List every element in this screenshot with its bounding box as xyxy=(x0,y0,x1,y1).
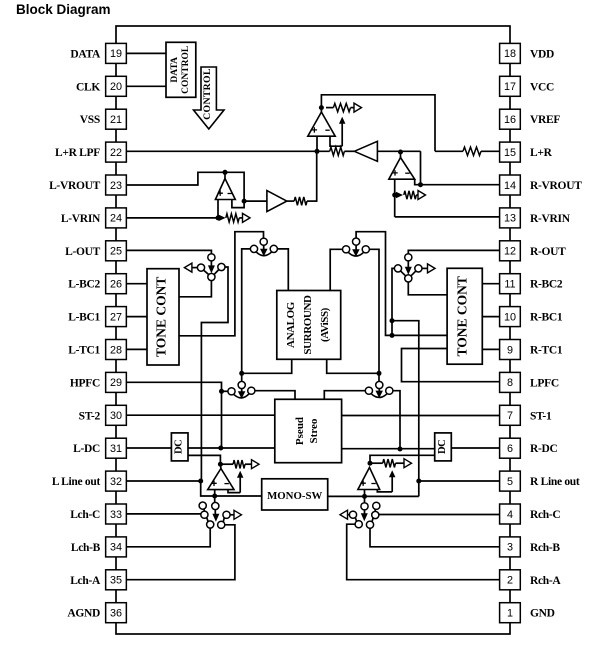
junction dot SW-D feed xyxy=(212,494,217,499)
op-amp U12 (R Line out) xyxy=(358,467,380,489)
CONTROL block arrow xyxy=(194,67,225,129)
svg-text:L-OUT: L-OUT xyxy=(65,246,101,258)
pin 7 box and label ST-1 xyxy=(500,405,552,425)
wire pin32 node to SW-D xyxy=(201,481,215,496)
svg-text:R-VROUT: R-VROUT xyxy=(530,180,582,192)
svg-text:14: 14 xyxy=(504,180,516,192)
wire pin10 to TONE CONT right xyxy=(482,316,499,318)
svg-text:16: 16 xyxy=(504,114,516,126)
block U8 Pseud Streo xyxy=(275,399,342,462)
svg-text:GND: GND xyxy=(530,608,555,620)
wire SW-Ar bottom to TONE CONT right xyxy=(408,282,447,295)
svg-text:L-DC: L-DC xyxy=(73,443,100,455)
wire pin3 Rch-B xyxy=(370,528,500,547)
resistor R2 (pin22 to buffer) xyxy=(330,147,345,155)
pin 3 box and label Rch-B xyxy=(500,537,561,557)
wire U3 plus input to pin22 net xyxy=(316,136,318,151)
wire pin33 Lch-C xyxy=(127,513,202,515)
pin 20 box and label CLK xyxy=(76,76,126,96)
pin 32 box and label L Line out xyxy=(52,471,126,491)
pin 34 box and label Lch-B xyxy=(71,537,127,557)
svg-text:LPFC: LPFC xyxy=(530,377,559,389)
pin 16 box and label VREF xyxy=(500,109,561,129)
svg-text:2: 2 xyxy=(507,575,513,587)
svg-text:SURROUND: SURROUND xyxy=(302,295,314,355)
pointer left of SW-E xyxy=(340,510,350,519)
wire Qr TONE CONT right to SW-Br xyxy=(356,232,447,336)
variable resistor VR2 (R-VRIN) xyxy=(396,191,426,200)
node dot on U3 output branch xyxy=(319,105,324,110)
svg-text:Lch-B: Lch-B xyxy=(71,542,101,554)
wire U9 minus stub xyxy=(228,490,240,493)
svg-text:L+R LPF: L+R LPF xyxy=(55,147,100,159)
wire DC right to pin6 xyxy=(451,447,499,449)
svg-text:Rch-B: Rch-B xyxy=(530,542,560,554)
svg-text:11: 11 xyxy=(504,279,515,291)
wire U3 minus feedback stub xyxy=(330,136,342,146)
wire pin30 ST-2 xyxy=(127,414,275,416)
svg-text:R-VRIN: R-VRIN xyxy=(530,213,571,225)
wire pin5 R Line out xyxy=(419,480,500,482)
svg-text:10: 10 xyxy=(504,311,516,323)
svg-text:ST-2: ST-2 xyxy=(79,410,101,422)
pin 1 box and label GND xyxy=(500,603,555,623)
control arrow at R1 xyxy=(339,117,346,146)
wire pin35 Lch-A xyxy=(127,525,235,580)
pin 9 box and label R-TC1 xyxy=(500,340,563,360)
wire Rr to R line out net xyxy=(392,321,419,497)
pin 23 box and label L-VROUT xyxy=(49,175,126,195)
svg-text:L+R: L+R xyxy=(530,147,553,159)
pin 19 box and label DATA xyxy=(70,43,126,63)
svg-text:33: 33 xyxy=(110,509,122,521)
junction dot U4 output xyxy=(398,150,403,155)
variable resistor VR1 (L-VRIN) xyxy=(219,213,250,222)
wire SW-A bottom to TONE CONT xyxy=(179,280,211,296)
svg-text:AGND: AGND xyxy=(67,608,100,620)
svg-text:R-BC2: R-BC2 xyxy=(530,279,563,291)
svg-text:TONE CONT: TONE CONT xyxy=(455,276,470,356)
svg-text:L-BC2: L-BC2 xyxy=(68,279,100,291)
svg-text:(AViSS): (AViSS) xyxy=(319,307,331,342)
switch SW-D (Lch A/B/C) xyxy=(199,502,230,528)
switch SW-Br xyxy=(343,238,370,257)
svg-text:R-OUT: R-OUT xyxy=(530,246,566,258)
block U6 TONE CONT (left) xyxy=(147,269,179,365)
switch SW-E (Rch A/B/C) xyxy=(349,502,380,528)
svg-text:13: 13 xyxy=(504,213,516,225)
wire U9 plus input xyxy=(214,490,216,503)
wire U5 output stub xyxy=(224,172,226,178)
svg-text:R-BC1: R-BC1 xyxy=(530,312,563,324)
pin 36 box and label AGND xyxy=(67,603,126,623)
svg-text:Rch-A: Rch-A xyxy=(530,575,561,587)
switch SW-Ar (R-OUT) xyxy=(394,254,422,282)
wire U12 minus stub xyxy=(377,490,392,492)
pin 11 box and label R-BC2 xyxy=(500,274,563,294)
wire U9 output apex stub xyxy=(219,464,222,468)
junction dot HPFC-SWC xyxy=(219,389,224,394)
svg-text:ST-1: ST-1 xyxy=(530,410,552,422)
pin 33 box and label Lch-C xyxy=(70,504,126,524)
wire pin32 L Line out xyxy=(127,480,201,482)
pin 27 box and label L-BC1 xyxy=(68,307,126,327)
junction dot buffer B2 input xyxy=(242,199,247,204)
op-amp U5 (L-VROUT) xyxy=(215,179,235,200)
wire pin24 L-VRIN xyxy=(127,217,219,219)
svg-text:12: 12 xyxy=(504,246,516,258)
pointer left of SW-A xyxy=(184,263,197,272)
wire Q TONE CONT to SW-B top xyxy=(179,232,264,336)
svg-text:TONE CONT: TONE CONT xyxy=(154,277,169,357)
wire R4 riser to pin22 node xyxy=(316,151,318,202)
svg-text:8: 8 xyxy=(507,377,513,389)
junction dot R-DC node xyxy=(398,447,403,452)
wire SW-Cr left stub to Pseud Stereo xyxy=(324,391,365,400)
junction dot pin32 node xyxy=(198,479,203,484)
svg-text:CONTROL: CONTROL xyxy=(181,46,191,94)
pin 5 box and label R Line out xyxy=(500,471,580,491)
svg-text:CONTROL: CONTROL xyxy=(202,68,213,120)
wire U5 plus input stub xyxy=(217,200,219,218)
resistor R4 (B2 output) xyxy=(294,197,307,205)
wire SW-Br left stub to AViSS xyxy=(330,249,343,290)
wire to buffer B2 xyxy=(244,200,267,202)
pin 15 box and label L+R xyxy=(500,142,553,162)
svg-text:17: 17 xyxy=(504,81,516,93)
pin 4 box and label Rch-C xyxy=(500,504,561,524)
svg-text:22: 22 xyxy=(110,147,122,159)
svg-text:25: 25 xyxy=(110,246,122,258)
svg-text:31: 31 xyxy=(110,443,122,455)
wire SW-B right stub to AViSS xyxy=(277,249,288,291)
op-amp U3 (L+R LPF) xyxy=(308,112,335,136)
pointer right of SW-Ar xyxy=(422,264,435,273)
wire U4 output stub xyxy=(400,152,402,158)
junction dot U4 plus node xyxy=(392,193,397,198)
svg-text:Pseud: Pseud xyxy=(294,417,306,445)
svg-text:Rch-C: Rch-C xyxy=(530,509,560,521)
wire pin34 Lch-B xyxy=(127,528,211,547)
block U10 MONO-SW xyxy=(262,479,328,510)
svg-text:L-VRIN: L-VRIN xyxy=(61,213,101,225)
svg-text:20: 20 xyxy=(110,81,122,93)
junction dot left bus xyxy=(239,371,244,376)
wire SW-C left stub to HPFC net xyxy=(222,390,229,392)
wire AViSS bottom-right stub xyxy=(327,359,379,373)
wire Pseud to R-DC xyxy=(342,448,435,450)
pin 17 box and label VCC xyxy=(500,76,554,96)
block U2 DATA CONTROL xyxy=(166,42,196,97)
block DC (right) xyxy=(435,433,452,461)
pin 28 box and label L-TC1 xyxy=(68,340,126,360)
svg-text:5: 5 xyxy=(507,476,513,488)
svg-text:4: 4 xyxy=(507,509,513,521)
pin 26 box and label L-BC2 xyxy=(68,274,126,294)
svg-text:3: 3 xyxy=(507,542,513,554)
svg-text:L Line out: L Line out xyxy=(52,476,101,488)
junction dot pin14 node xyxy=(418,182,423,187)
wire U4 output to pin14 xyxy=(421,151,500,184)
svg-text:23: 23 xyxy=(110,180,122,192)
svg-text:18: 18 xyxy=(504,48,516,60)
pin 35 box and label Lch-A xyxy=(70,570,126,590)
svg-text:Lch-C: Lch-C xyxy=(70,509,100,521)
svg-text:VREF: VREF xyxy=(530,114,560,126)
buffer B1 (points left) xyxy=(354,141,377,161)
wire DC lower stub to op-amp U9 output xyxy=(188,455,220,464)
control arrow at R5 xyxy=(237,471,244,493)
wire L+R pin15 segment xyxy=(435,150,500,152)
wire DC to Pseud Streo xyxy=(188,447,275,449)
pin 12 box and label R-OUT xyxy=(500,241,567,261)
pin 6 box and label R-DC xyxy=(500,438,558,458)
wire DC right lower stub to op-amp U12 output xyxy=(370,455,435,463)
svg-text:DATA: DATA xyxy=(70,48,101,60)
block DC (left) xyxy=(171,433,188,461)
svg-text:L-TC1: L-TC1 xyxy=(68,345,100,357)
svg-text:9: 9 xyxy=(507,344,513,356)
junction dot U9 output xyxy=(218,462,223,467)
junction dot U5 output xyxy=(223,170,228,175)
pin 13 box and label R-VRIN xyxy=(500,208,571,228)
wire SW-Ar left stub down (wire Rr) xyxy=(392,268,395,335)
svg-text:Lch-A: Lch-A xyxy=(70,575,101,587)
svg-text:6: 6 xyxy=(507,443,513,455)
pointer after R5 xyxy=(252,460,260,469)
resistor R3 (L+R input) xyxy=(463,147,481,155)
pin 14 box and label R-VROUT xyxy=(500,175,583,195)
svg-text:L-BC1: L-BC1 xyxy=(68,312,100,324)
wire pin2 Rch-A xyxy=(347,524,500,580)
wire pin8 LPFC staircase xyxy=(402,349,500,382)
junction dot Rr branch xyxy=(390,318,395,323)
pointer after R6 xyxy=(404,459,412,468)
wire pin27 to TONE CONT xyxy=(127,316,148,318)
resistor R1 (U3 output) xyxy=(333,103,350,111)
resistor R5 (U9 out) xyxy=(233,460,245,468)
wire SW-D feed to MONO-SW xyxy=(215,495,262,497)
svg-text:HPFC: HPFC xyxy=(70,377,100,389)
svg-text:MONO-SW: MONO-SW xyxy=(267,490,322,502)
pin 30 box and label ST-2 xyxy=(79,405,127,425)
svg-text:35: 35 xyxy=(110,575,122,587)
svg-text:DC: DC xyxy=(174,440,185,454)
wire pin9 to TONE CONT right xyxy=(482,348,499,350)
wire SW-D right stub pointer xyxy=(230,510,242,519)
IC body outline xyxy=(116,26,510,634)
pin 29 box and label HPFC xyxy=(70,372,126,392)
wire U4 minus stub xyxy=(415,179,421,185)
svg-text:30: 30 xyxy=(110,410,122,422)
junction dot Qr-Rr link xyxy=(390,333,395,338)
switch SW-B xyxy=(250,238,277,256)
wire B2 output to resistor R4 xyxy=(287,200,317,202)
svg-text:CLK: CLK xyxy=(76,81,100,93)
pin 21 box and label VSS xyxy=(80,109,127,129)
svg-text:R-DC: R-DC xyxy=(530,443,558,455)
wire AViSS bottom-left stub xyxy=(242,359,292,373)
junction dot on pin24 wire xyxy=(216,215,221,220)
svg-text:32: 32 xyxy=(110,476,122,488)
junction dot U12 output xyxy=(368,461,373,466)
svg-text:36: 36 xyxy=(110,608,122,620)
wire pin26 to TONE CONT xyxy=(127,283,148,285)
wire U9 output resistor xyxy=(220,463,251,465)
wire pin23 L-VROUT loop xyxy=(127,172,245,207)
svg-text:15: 15 xyxy=(504,147,516,159)
pin 24 box and label L-VRIN xyxy=(61,208,126,228)
pin 22 box and label L+R LPF xyxy=(55,142,126,162)
wire U4 plus input down to R-VRIN net xyxy=(394,179,396,217)
junction dot pin5 node xyxy=(416,479,421,484)
resistor R6 (U12 out) xyxy=(383,459,396,467)
wire U12 output resistor xyxy=(370,462,404,464)
wire U12 plus input xyxy=(364,490,366,503)
wire pin11 to TONE CONT right xyxy=(482,283,499,285)
svg-text:26: 26 xyxy=(110,279,122,291)
wire pin4 Rch-C xyxy=(379,514,500,516)
pin 2 box and label Rch-A xyxy=(500,570,562,590)
wire pin20 to DATA CONTROL xyxy=(127,85,167,87)
block U7 ANALOG SURROUND (AViSS) xyxy=(277,291,341,360)
svg-text:24: 24 xyxy=(110,213,122,225)
svg-text:DATA: DATA xyxy=(170,57,180,83)
wire SW-A right stub down (wire R) xyxy=(201,267,228,481)
wire SW-Cr right stub to R-DC node xyxy=(393,391,400,449)
wire pin13 R-VRIN xyxy=(395,216,500,218)
wire pin25 L-OUT xyxy=(127,250,212,254)
svg-text:L-VROUT: L-VROUT xyxy=(49,180,101,192)
title Block Diagram xyxy=(16,2,111,17)
svg-text:Streo: Streo xyxy=(308,418,320,443)
svg-text:34: 34 xyxy=(110,542,122,554)
svg-text:R Line out: R Line out xyxy=(530,476,580,488)
wire buffer B1 base to op-amp U4 output node xyxy=(377,150,420,152)
svg-text:28: 28 xyxy=(110,344,122,356)
junction dot right bus xyxy=(377,371,382,376)
wire pin22 L+R LPF net xyxy=(127,150,355,152)
switch SW-A (L-OUT) xyxy=(197,254,225,281)
junction dot L-DC node xyxy=(218,446,223,451)
svg-text:Block Diagram: Block Diagram xyxy=(16,2,111,17)
svg-text:VCC: VCC xyxy=(530,81,554,93)
pin 8 box and label LPFC xyxy=(500,372,559,392)
wire pin28 to TONE CONT xyxy=(127,348,148,350)
pin 18 box and label VDD xyxy=(500,43,554,63)
junction dot SW-E feed xyxy=(362,494,367,499)
wire MONO-SW to SW-E feed xyxy=(328,495,419,497)
control arrow at R6 xyxy=(389,470,396,492)
wire SW-B left stub to bus xyxy=(242,249,251,382)
buffer B2 (points right) xyxy=(267,191,287,212)
wire pin19 to DATA CONTROL xyxy=(127,52,167,54)
wire pin29 HPFC xyxy=(127,382,222,448)
pin 31 box and label L-DC xyxy=(73,438,126,458)
pin 25 box and label L-OUT xyxy=(65,241,126,261)
switch SW-C xyxy=(228,381,255,398)
svg-text:21: 21 xyxy=(110,114,122,126)
wire top loop from op-amp U3 output to L+R resistor xyxy=(321,95,435,152)
svg-text:27: 27 xyxy=(110,311,122,323)
svg-text:R-TC1: R-TC1 xyxy=(530,345,563,357)
op-amp U4 (R-VROUT) xyxy=(389,158,415,180)
wire pin7 ST-1 xyxy=(342,415,500,417)
block U11 TONE CONT (right) xyxy=(447,268,482,364)
junction dot pin22 node xyxy=(315,149,320,154)
svg-text:7: 7 xyxy=(507,410,513,422)
wire SW-C right stub to Pseud Stereo xyxy=(255,391,295,400)
pin 10 box and label R-BC1 xyxy=(500,307,563,327)
svg-text:1: 1 xyxy=(507,608,513,620)
svg-text:VSS: VSS xyxy=(80,114,100,126)
pointer after R1 xyxy=(354,103,362,112)
switch SW-Cr xyxy=(365,381,393,398)
svg-text:29: 29 xyxy=(110,377,122,389)
wire U3 resistor branch xyxy=(326,107,354,109)
wire SW-Br right stub to bus xyxy=(369,249,379,381)
wire pin31 to DC xyxy=(127,447,172,449)
svg-text:DC: DC xyxy=(437,440,448,454)
svg-text:VDD: VDD xyxy=(530,48,554,60)
op-amp U9 (L Line out) xyxy=(208,469,234,490)
svg-text:ANALOG: ANALOG xyxy=(285,301,297,348)
wire pin12 R-OUT xyxy=(408,250,499,254)
svg-text:19: 19 xyxy=(110,48,122,60)
